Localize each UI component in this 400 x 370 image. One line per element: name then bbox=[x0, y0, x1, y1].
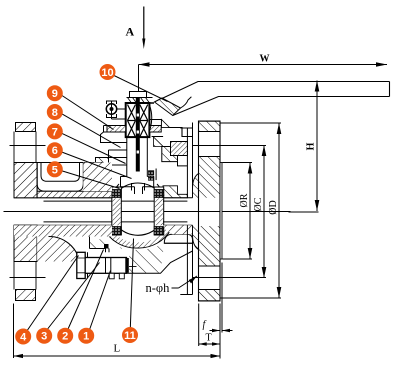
left pad steps bbox=[96, 150, 127, 165]
packing X left bbox=[128, 105, 136, 138]
crescent hatch below ball bbox=[103, 225, 171, 249]
dim L bbox=[14, 304, 221, 359]
stem-ball slot bbox=[132, 183, 145, 191]
flange upper bbox=[14, 163, 37, 198]
pad hatch bbox=[96, 158, 109, 166]
svg-text:f: f bbox=[203, 320, 207, 331]
svg-text:A: A bbox=[126, 25, 135, 39]
svg-text:ØR: ØR bbox=[239, 193, 250, 207]
bevel triangles hatched bbox=[162, 120, 170, 128]
sparse hatch under ball bbox=[90, 237, 167, 274]
bore lines bbox=[14, 198, 193, 225]
seat right bbox=[154, 187, 164, 235]
svg-text:9: 9 bbox=[52, 88, 58, 100]
thrust seal dots right of flare bbox=[148, 171, 153, 175]
dim OD bbox=[221, 123, 282, 298]
dim OC bbox=[224, 145, 267, 278]
flange lower bbox=[14, 225, 37, 261]
flange top tab bbox=[16, 123, 36, 132]
body material left of bonnet, above bore strip bbox=[83, 163, 112, 192]
stem flare bbox=[121, 177, 154, 187]
handle hub hatched band bbox=[155, 98, 181, 116]
left neck top bbox=[14, 163, 112, 198]
svg-text:n-φh: n-φh bbox=[146, 281, 171, 295]
dim H bbox=[289, 81, 320, 213]
packing X right bbox=[140, 105, 148, 138]
seat left bbox=[112, 187, 122, 235]
pipe centerline bbox=[4, 211, 291, 213]
ball bottom arc bbox=[113, 220, 164, 236]
handle rolled edge arc bbox=[181, 97, 192, 108]
raised face bbox=[220, 163, 222, 260]
right bump white bbox=[164, 234, 192, 243]
gland flange right hatched bbox=[149, 126, 161, 133]
svg-text:H: H bbox=[306, 142, 317, 150]
bolt hole sides bbox=[14, 132, 36, 290]
view arrow A bbox=[142, 7, 145, 50]
bonnet right staircase bbox=[150, 120, 193, 137]
stem nut bbox=[127, 92, 153, 104]
cavity arcs top/bottom bbox=[112, 184, 164, 196]
svg-text:8: 8 bbox=[52, 107, 58, 119]
pad below gland left bbox=[101, 132, 127, 143]
body hatch above right seat bbox=[163, 186, 187, 198]
ball top arc bbox=[116, 183, 161, 194]
svg-text:ØC: ØC bbox=[253, 197, 264, 211]
bonnet column bbox=[127, 137, 148, 176]
svg-text:11: 11 bbox=[124, 330, 136, 342]
svg-text:ØD: ØD bbox=[268, 200, 279, 214]
packing box bbox=[126, 103, 150, 137]
handle lever bbox=[155, 82, 390, 116]
left bottom body bbox=[14, 225, 112, 261]
svg-text:4: 4 bbox=[20, 332, 27, 344]
gland flange left hatched bbox=[107, 126, 126, 133]
svg-text:3: 3 bbox=[41, 331, 47, 343]
svg-text:5: 5 bbox=[52, 164, 58, 176]
dim OR bbox=[223, 163, 253, 260]
pipe wall hatch bbox=[14, 225, 112, 236]
stem bottom column bbox=[135, 187, 143, 194]
right wall hatch band bbox=[163, 225, 193, 234]
bottom face and right slope bbox=[127, 251, 193, 273]
stem side arc bbox=[150, 105, 152, 131]
cavity inner step bbox=[41, 163, 80, 182]
hatched wedge with fillet bbox=[37, 236, 79, 261]
dim f bbox=[210, 263, 233, 359]
stopper bolt bbox=[106, 101, 125, 120]
flange bottom tab bbox=[16, 290, 36, 301]
body right of flare bbox=[155, 169, 157, 181]
cavity outer bbox=[37, 163, 83, 192]
bolt centerlines bbox=[10, 145, 46, 147]
mount pad left outline bbox=[104, 119, 126, 132]
svg-text:W: W bbox=[260, 54, 270, 65]
stem bar dark bbox=[136, 98, 140, 172]
outlines bbox=[16, 123, 36, 132]
svg-text:1: 1 bbox=[83, 331, 89, 343]
svg-text:10: 10 bbox=[101, 67, 113, 79]
strip hatch above bore bbox=[37, 191, 112, 198]
svg-text:2: 2 bbox=[62, 331, 68, 343]
svg-text:6: 6 bbox=[52, 145, 58, 157]
boss outlines bbox=[90, 237, 110, 253]
dim T bbox=[199, 304, 220, 347]
svg-text:7: 7 bbox=[52, 126, 58, 138]
dim W bbox=[139, 62, 388, 97]
svg-text:L: L bbox=[114, 343, 121, 355]
svg-text:T: T bbox=[206, 333, 212, 344]
body shoulder right hatched bbox=[162, 147, 178, 162]
body right edge bbox=[171, 123, 193, 295]
